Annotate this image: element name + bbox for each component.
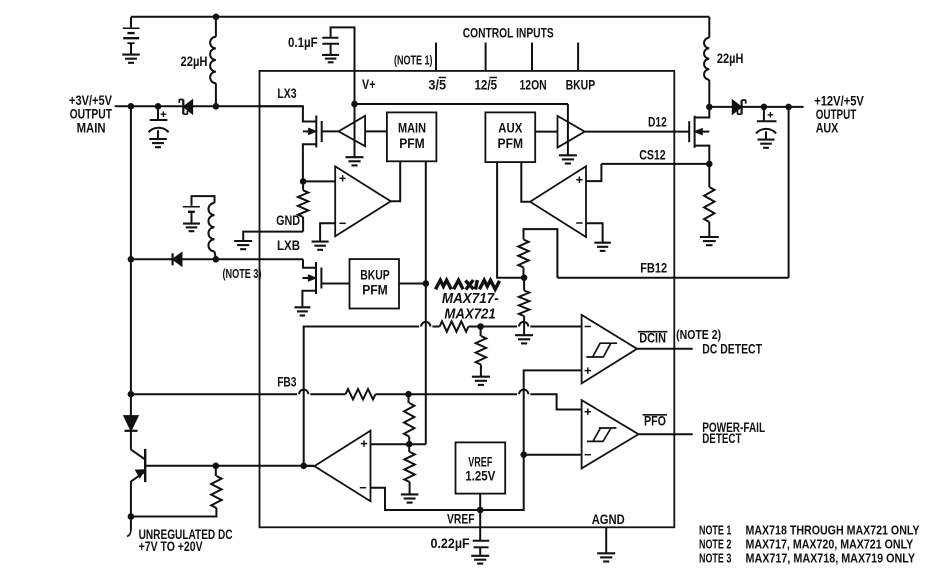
svg-text:PFM: PFM xyxy=(498,136,524,151)
wire AGND pin xyxy=(605,527,607,553)
resistor R1 (current sense, Q1 source) xyxy=(302,181,304,190)
hop FB3 over VREF bus xyxy=(519,390,528,395)
comparator U9 (power-fail detector) xyxy=(582,400,639,468)
resistor R8 (FB3 divider upper) xyxy=(408,394,410,403)
ground below battery B1 xyxy=(122,55,140,63)
resistor R2 (aux current sense) xyxy=(708,164,710,187)
wire LX3 to Q1 drain xyxy=(260,106,317,121)
ground at GND pin (external) xyxy=(234,241,252,249)
svg-text:FB12: FB12 xyxy=(640,259,667,275)
node aux output / FB12 riser xyxy=(785,104,792,111)
U9 hysteresis symbol xyxy=(587,428,617,441)
wire U9 - input xyxy=(524,454,582,456)
wire V+ internal rail xyxy=(354,71,356,104)
svg-text:MAIN: MAIN xyxy=(77,119,106,135)
wire DCIN- sense line from LIN xyxy=(304,327,420,466)
svg-text:(NOTE 3): (NOTE 3) xyxy=(223,266,262,281)
svg-text:FB3: FB3 xyxy=(277,373,296,389)
svg-text:BKUP: BKUP xyxy=(360,267,390,282)
svg-text:12/5: 12/5 xyxy=(475,76,498,92)
wire U3 - input to ground xyxy=(320,223,335,241)
svg-text:1.25V: 1.25V xyxy=(465,468,495,483)
svg-text:MAX717, MAX720, MAX721 ONLY: MAX717, MAX720, MAX721 ONLY xyxy=(746,538,914,552)
wire U3 + input xyxy=(303,180,335,182)
ground at U6 - xyxy=(594,243,611,251)
transistor Q3 (aux n-channel MOSFET) xyxy=(689,116,694,148)
ground below R4 xyxy=(515,335,533,343)
wire +3V/+5V main output line xyxy=(115,105,303,107)
wire PFO output xyxy=(639,433,693,435)
svg-text:0.22µF: 0.22µF xyxy=(431,535,471,551)
Q3 source stub xyxy=(695,146,710,164)
capacitor C2 (polarized, aux output) xyxy=(763,107,765,121)
wire left rail xyxy=(130,106,132,449)
wire GND pin lead xyxy=(243,232,303,241)
capacitor C4 0.22uF (VREF bypass) xyxy=(473,540,490,542)
hop DCIN- over FB12 divider leg xyxy=(519,322,528,327)
svg-text:GND: GND xyxy=(276,212,300,228)
diode D3 (left rail, vertical) xyxy=(124,416,138,431)
node reference bus / U9 - xyxy=(520,451,527,458)
schottky diode D4 (aux output) xyxy=(733,100,746,114)
svg-text:(NOTE 2): (NOTE 2) xyxy=(676,327,721,342)
svg-text:0.1µF: 0.1µF xyxy=(288,34,318,50)
node LX12 / L3 xyxy=(706,104,713,111)
svg-text:(NOTE 1): (NOTE 1) xyxy=(394,52,433,67)
U5 supply line through to ground xyxy=(567,104,569,155)
svg-text:22µH: 22µH xyxy=(181,53,208,69)
wire U3 output to MAIN PFM xyxy=(391,161,400,201)
svg-text:MAX717, MAX718, MAX719 ONLY: MAX717, MAX718, MAX719 ONLY xyxy=(746,552,916,566)
IC outline box MAX717-MAX721 xyxy=(260,71,675,527)
comparator U7 (DCIN detector) xyxy=(582,315,637,384)
resistor R3 (FB12 divider upper) xyxy=(524,229,558,278)
wire FB12 riser xyxy=(788,107,790,278)
ground below C4 xyxy=(471,556,489,564)
ground below Q2 xyxy=(294,307,310,315)
ground below R6 xyxy=(472,377,490,385)
wire DCIN output xyxy=(637,348,693,350)
wire U6 - input to ground xyxy=(586,223,603,242)
wire LXB line (external) xyxy=(131,258,303,260)
node FB3 divider tap / U8 + xyxy=(406,441,413,448)
svg-text:AUX: AUX xyxy=(816,120,839,136)
node DCIN- divider tap xyxy=(477,323,484,330)
ground below R9 xyxy=(401,494,419,502)
svg-text:PFO: PFO xyxy=(644,414,666,429)
wire top supply rail xyxy=(131,16,709,18)
capacitor C3 0.1uF (V+ bypass) xyxy=(331,27,355,71)
svg-text:12ON: 12ON xyxy=(520,76,547,92)
wire LXB to Q2 drain xyxy=(303,259,316,268)
svg-text:PFM: PFM xyxy=(399,136,425,151)
block MAIN PFM xyxy=(387,112,437,161)
node LXB / left rail xyxy=(128,256,135,263)
wire VREF box to VREF node xyxy=(479,494,481,510)
svg-text:NOTE 2: NOTE 2 xyxy=(699,537,731,551)
wire BKUP PFM output xyxy=(399,283,426,285)
svg-text:DC DETECT: DC DETECT xyxy=(702,341,762,356)
node BKUP PFM / PFM bus xyxy=(423,280,430,287)
node VREF xyxy=(477,507,484,514)
wire U8 + input xyxy=(371,443,410,445)
resistor R6 (DCIN- divider to ground) xyxy=(480,327,482,337)
svg-text:MAX718 THROUGH MAX721 ONLY: MAX718 THROUGH MAX721 ONLY xyxy=(746,524,921,538)
node main output / left rail xyxy=(128,103,135,110)
transistor Q2 (backup n-channel MOSFET) xyxy=(316,262,321,294)
svg-text:MAX717-: MAX717- xyxy=(442,290,499,307)
wire U8 output to LIN xyxy=(304,465,315,467)
block AUX PFM xyxy=(485,112,535,162)
battery B2 (backup battery at LXB) xyxy=(183,196,215,223)
svg-text:AUX: AUX xyxy=(498,120,522,135)
ground below C3 xyxy=(322,55,339,62)
wire tap to PFM bus xyxy=(409,443,426,445)
inductor L1 22uH (main) xyxy=(215,17,217,37)
resistor R10 (LIN to unregulated) xyxy=(215,466,217,476)
node FB12 divider tap xyxy=(521,274,528,281)
wire PFM bus vertical (MAIN PFM to FB3 divider) xyxy=(425,161,427,444)
U2 supply line through to ground xyxy=(354,104,356,157)
wire U6 output to AUX PFM xyxy=(521,162,530,202)
ground below U5 xyxy=(559,155,577,163)
node U8 output / LIN xyxy=(300,463,307,470)
pin stub 12ON xyxy=(531,43,533,71)
hop DCIN- over PFM bus xyxy=(421,322,430,327)
svg-text:+7V TO +20V: +7V TO +20V xyxy=(139,539,203,554)
Q2 body arrow xyxy=(302,277,310,279)
block VREF 1.25V xyxy=(456,442,506,493)
svg-text:NOTE 1: NOTE 1 xyxy=(699,523,731,537)
hop FB3 over DCIN- riser xyxy=(299,390,308,395)
node Q1 source / U3+ xyxy=(300,178,307,185)
comparator U6 (aux error comparator) xyxy=(530,166,586,237)
node top-rail / L1 junction xyxy=(213,13,220,20)
resistor R9 (FB3 divider lower) xyxy=(408,444,410,452)
ground below battery B2 xyxy=(183,224,200,232)
node FB3 / left rail xyxy=(128,391,135,398)
resistor R5 (DCIN- series) xyxy=(440,321,469,331)
comparator U3 (main error comparator) xyxy=(335,166,391,236)
svg-text:LX3: LX3 xyxy=(277,85,296,101)
node V+ / buffer U2 supply xyxy=(351,101,358,108)
wire FB3 internal xyxy=(260,393,298,395)
ground below C2 xyxy=(758,140,775,148)
svg-text:MAIN: MAIN xyxy=(398,120,426,135)
wire VREF pin to bypass cap xyxy=(479,510,481,540)
svg-text:VREF: VREF xyxy=(447,510,475,526)
wire VREF node to comparator reference bus xyxy=(480,370,581,510)
node bottom rail / R10 return xyxy=(128,513,135,520)
pin stub 12/5 xyxy=(485,43,487,71)
wire AUX PFM to buffer U5 xyxy=(535,131,557,133)
U7 hysteresis symbol xyxy=(586,343,617,357)
ground below U2 xyxy=(346,157,364,165)
node FB3 divider tap xyxy=(405,391,412,398)
svg-text:D12: D12 xyxy=(648,114,667,130)
buffer U5 (aux gate driver) xyxy=(558,116,585,148)
ground at U3 - xyxy=(312,242,329,250)
wire FB12 xyxy=(557,277,788,279)
Q1 source stub xyxy=(303,144,316,181)
node CS12 / Q3 source xyxy=(706,161,713,168)
wire FB3 external segment xyxy=(131,393,260,395)
node LIN / R10 xyxy=(213,463,220,470)
wire CS12 xyxy=(601,163,709,165)
wire +12V/+5V aux output line xyxy=(709,106,803,108)
wire AUX PFM feedback lead to FB12 divider tap xyxy=(497,162,524,278)
svg-text:AGND: AGND xyxy=(592,511,625,527)
ground at AGND xyxy=(597,553,615,561)
schottky diode D1 (main output) xyxy=(179,100,192,115)
wire LIN external line xyxy=(145,465,314,467)
resistor R4 (FB12 divider lower) xyxy=(523,278,525,291)
svg-text:BKUP: BKUP xyxy=(566,76,596,92)
svg-text:CS12: CS12 xyxy=(639,147,666,163)
wire U2 input from MAIN PFM xyxy=(365,130,387,132)
wire U8 - input to VREF node xyxy=(371,488,481,510)
Q1 body arrow xyxy=(303,130,311,132)
pin stub 3/5 xyxy=(435,43,437,71)
wire FB3 to U9 + input xyxy=(530,394,581,409)
pin stub BKUP xyxy=(577,43,579,71)
transistor Q1 (main n-channel MOSFET) xyxy=(316,116,321,148)
ground below C1 xyxy=(149,139,167,147)
Q3 body arrow xyxy=(700,131,709,133)
svg-text:V+: V+ xyxy=(362,76,376,92)
ground below R2 xyxy=(700,237,719,245)
wire Q2 gate to BKUP PFM xyxy=(321,283,349,285)
input hook (unregulated dc entry) xyxy=(127,530,131,536)
capacitor C1 (polarized, main output) xyxy=(157,106,159,120)
svg-text:DCIN: DCIN xyxy=(639,330,666,345)
wire D12 (U5 to Q3 gate) xyxy=(585,131,690,133)
svg-text:3/5: 3/5 xyxy=(428,76,446,92)
resistor R7 (FB3 series) xyxy=(346,389,376,399)
svg-text:PFM: PFM xyxy=(362,283,388,298)
MAXIM logo xyxy=(436,280,500,290)
diode D2 (LXB line) xyxy=(173,253,182,266)
node main output / L1 xyxy=(213,103,220,110)
svg-text:NOTE 3: NOTE 3 xyxy=(699,552,731,566)
transistor Q4 (PNP pass transistor) xyxy=(131,449,145,482)
block BKUP PFM xyxy=(350,259,400,308)
node aux output / C2 xyxy=(761,104,768,111)
wire U6 + input to CS12 xyxy=(586,164,601,181)
node main output / C1 xyxy=(155,103,162,110)
svg-text:CONTROL INPUTS: CONTROL INPUTS xyxy=(463,24,554,40)
inductor L2 (backup 22uH) xyxy=(208,203,214,251)
battery B1 (backup battery to ground, top left) xyxy=(123,17,140,55)
inductor L3 22uH (aux) xyxy=(708,17,710,38)
svg-text:DETECT: DETECT xyxy=(702,431,742,446)
Q3 drain stub xyxy=(695,107,710,118)
node LXB / L2 xyxy=(213,256,220,263)
wire emitter to unregulated input xyxy=(130,481,132,530)
svg-text:LXB: LXB xyxy=(277,237,300,253)
Q2 source stub to ground xyxy=(302,291,316,307)
buffer U2 (main gate driver) xyxy=(322,130,339,132)
svg-text:22µH: 22µH xyxy=(717,50,744,66)
